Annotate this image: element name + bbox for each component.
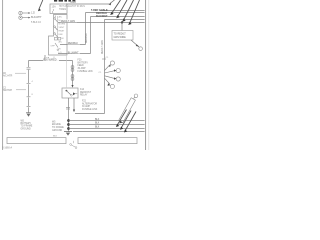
svg-text:DEF: DEF (59, 34, 64, 36)
svg-text:30 AMP: 30 AMP (82, 105, 91, 108)
junction dots (67, 119, 70, 122)
svg-text:TO FRAME: TO FRAME (21, 125, 33, 128)
relay ground leg (68, 98, 70, 132)
left text block 1 (3, 72, 13, 78)
svg-text:15A: 15A (52, 6, 57, 9)
svg-text:RED/LT GRN: RED/LT GRN (102, 40, 104, 54)
splice between boxes (70, 144, 72, 146)
fuse block box (50, 4, 67, 14)
svg-text:NORM: NORM (59, 23, 66, 25)
svg-text:BLK/WHT: BLK/WHT (31, 16, 42, 19)
fusible link terminal circle (134, 94, 138, 98)
junction dot on RED/LT GRN (121, 21, 123, 23)
svg-text:BATTERY: BATTERY (21, 122, 32, 125)
svg-text:A/C-HTR: A/C-HTR (3, 74, 13, 77)
svg-text:FUSIBLE LINK: FUSIBLE LINK (78, 71, 94, 73)
svg-text:S-1660-A: S-1660-A (2, 147, 13, 150)
svg-text:A/C: A/C (59, 40, 63, 43)
svg-text:TO FRAME: TO FRAME (52, 126, 64, 129)
wire ign feed run (105, 19, 145, 21)
wire RED/BLK lower run (60, 44, 86, 46)
fuse symbol (52, 9, 54, 13)
wire upper feed run (100, 10, 145, 12)
svg-text:HOT IN RUN: HOT IN RUN (72, 6, 86, 8)
connector arrows (20, 12, 21, 13)
bottom wires to right (69, 120, 145, 122)
note box lead to terminal (131, 40, 139, 47)
wire BLU/WHT lower run (58, 53, 91, 55)
page right border (145, 0, 147, 150)
inline connector on ground leg (66, 107, 70, 109)
fusible link arrow (119, 120, 122, 123)
relay box (62, 88, 78, 98)
off-page diagonal for RED wire (110, 0, 115, 4)
F22 text block (82, 101, 98, 111)
svg-text:RED/LT GRN: RED/LT GRN (61, 20, 76, 23)
fusible link slanted body (119, 98, 136, 123)
page left border (2, 0, 4, 150)
control box drop to BLK W/RED (44, 55, 46, 61)
fusible link terminal lead (134, 97, 135, 98)
inline connector tick on riser (102, 58, 106, 60)
fusible link drop (72, 61, 74, 87)
wire RED/LT GRN (58, 22, 145, 24)
wire RED/BLK top run (86, 12, 145, 14)
title text fragment (cropped) (54, 0, 75, 2)
ign feed riser (104, 20, 106, 114)
W5 ground text (52, 121, 64, 131)
wire BLK/WHT top run (91, 16, 145, 18)
left harness wire (28, 61, 30, 68)
svg-text:GROUND: GROUND (21, 128, 32, 130)
svg-text:OFF: OFF (51, 45, 56, 47)
terminal fan from riser (105, 65, 116, 84)
wire BLK/WHT riser (90, 17, 92, 54)
off-page arrows top right (112, 0, 140, 24)
svg-text:BLK: BLK (53, 136, 58, 138)
svg-text:ALTERNATOR: ALTERNATOR (82, 102, 97, 105)
svg-text:BATTERY: BATTERY (78, 61, 89, 64)
connector circles top left (19, 11, 22, 14)
svg-text:5 BLK 16: 5 BLK 16 (31, 21, 42, 24)
svg-text:BLK/WHT: BLK/WHT (96, 15, 108, 18)
fan terminal circles (110, 61, 114, 65)
svg-text:VENT: VENT (59, 27, 65, 29)
off-page arrows bottom right (117, 110, 136, 132)
switch symbols inside control box (54, 16, 61, 51)
svg-text:30 AMP: 30 AMP (78, 67, 87, 70)
svg-text:BLK: BLK (95, 126, 100, 128)
svg-text:HEAT: HEAT (59, 30, 65, 33)
bottom-right component box (78, 138, 137, 144)
relay internals (66, 90, 68, 92)
wire RED/BLK riser (85, 13, 87, 45)
A/C control switch box (49, 15, 68, 56)
feed arrow into fuse block (39, 0, 43, 10)
svg-text:DEFROST: DEFROST (80, 92, 92, 94)
terminal circle (139, 47, 143, 51)
svg-text:SWITCH: SWITCH (3, 90, 12, 92)
wire labels top right (91, 9, 108, 18)
svg-text:GRN WIRE: GRN WIRE (114, 36, 127, 39)
control box inner wire (57, 16, 59, 37)
F20 text block (78, 60, 94, 73)
svg-text:A/C: A/C (59, 15, 63, 18)
svg-text:BLK: BLK (95, 123, 100, 125)
bottom-left component box (7, 138, 66, 144)
svg-text:BLK: BLK (95, 119, 100, 121)
svg-text:K14: K14 (80, 89, 85, 91)
svg-text:GROUND: GROUND (52, 130, 63, 132)
svg-text:RED/BLK: RED/BLK (86, 33, 88, 43)
svg-text:ENGINE: ENGINE (52, 124, 61, 126)
relay feed from control (65, 55, 67, 88)
BLK labels on bottom wires (95, 119, 100, 128)
note box TO RED WIRE (112, 31, 133, 41)
control box inner labels (51, 15, 66, 53)
wire RED at top (66, 3, 109, 5)
svg-text:HOT AT ALL: HOT AT ALL (59, 5, 72, 8)
svg-text:1J2: 1J2 (31, 12, 36, 15)
ground symbol engine (64, 131, 72, 133)
page right edge shadow (148, 0, 150, 150)
svg-text:RED: RED (71, 0, 77, 4)
battery ground text (21, 121, 33, 131)
svg-text:FUSIBLE LINK: FUSIBLE LINK (82, 109, 98, 111)
relay switched output (73, 98, 75, 110)
svg-text:BLU/WHT: BLU/WHT (68, 51, 79, 54)
left text block 2 (3, 87, 12, 92)
svg-text:TIMES: TIMES (59, 9, 66, 11)
drop wire from junction (121, 23, 123, 31)
svg-text:RED/BLK: RED/BLK (68, 42, 79, 45)
wire BLK W/RED run (29, 60, 73, 62)
ground symbol battery (26, 112, 31, 114)
K14 text block (80, 89, 92, 97)
svg-text:RELAY: RELAY (80, 94, 88, 97)
svg-text:FEED: FEED (78, 65, 84, 67)
ign feed bottom run (75, 113, 105, 115)
